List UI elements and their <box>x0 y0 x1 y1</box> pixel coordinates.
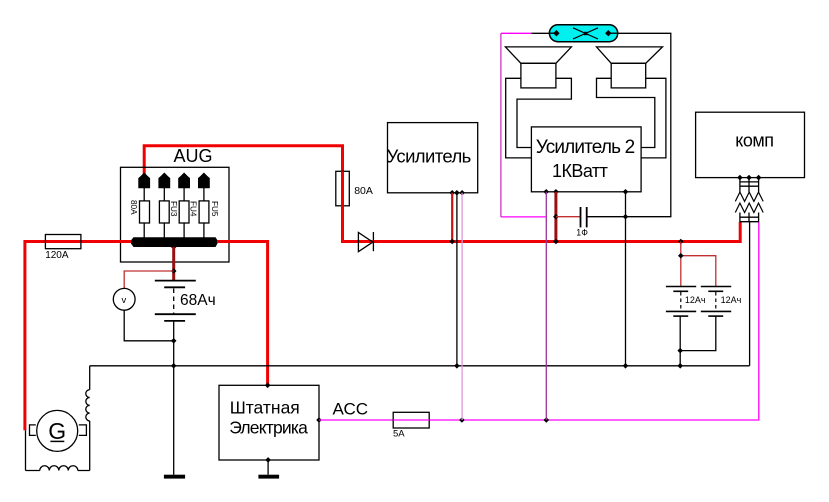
wire: voltmeter return <box>124 310 174 341</box>
box AUG <box>121 167 230 262</box>
fuse FU2 body <box>143 187 145 238</box>
svg-text:AUG: AUG <box>174 146 213 166</box>
generator right terminal bracket <box>79 425 87 436</box>
node: amp1 pin acc <box>459 190 465 196</box>
node: capacitor tap junction <box>553 214 559 220</box>
speaker SP1 body <box>521 63 556 88</box>
node: amp1 pin gnd <box>454 190 460 196</box>
node: capacitor lead / amp2 gnd crossing junction <box>623 214 629 220</box>
svg-text:G: G <box>48 418 66 444</box>
wire: amp1 ground to chassis rail <box>456 193 458 366</box>
node: 12Ач minus join <box>677 348 683 354</box>
ground: stock electrics <box>267 460 269 475</box>
battery 68Ач plate 2 long <box>155 313 196 315</box>
node: amp2 pin gnd <box>623 189 629 195</box>
generator G circle <box>37 410 78 451</box>
box Усилитель 2 1КВатт <box>531 127 641 192</box>
svg-text:Электрика: Электрика <box>229 417 308 437</box>
wire: capacitor right lead to lamp feed (black) <box>587 33 671 216</box>
wire: generator left lead down <box>25 430 27 470</box>
battery 68Ач dashed center <box>173 289 175 314</box>
battery 68Ач plate 2 short <box>164 320 185 322</box>
fuse FU4 body <box>183 187 185 238</box>
node: amp2 pin +12 <box>553 189 559 195</box>
node: voltmeter return junction <box>171 338 177 344</box>
wire: 12Ач minus leads to chassis rail <box>680 316 716 366</box>
voltmeter V <box>113 288 135 310</box>
node: komp pin 2 <box>746 175 752 181</box>
twisted cable: bottom ladder <box>740 213 759 223</box>
wire: amp2 remote down to ACC bus (violet) <box>545 192 547 420</box>
wire: thin red to voltmeter <box>124 271 174 289</box>
node: battery line / chassis rail junction <box>171 363 177 369</box>
svg-text:Усилитель 2: Усилитель 2 <box>536 137 635 158</box>
fuse 120A <box>45 235 81 249</box>
svg-text:80A: 80A <box>354 185 373 197</box>
wire: amp2 +12 to red bus (dark red) <box>554 192 557 242</box>
wire: SP1 left lead to amp2 <box>506 78 532 158</box>
wire: magenta lamp branch (vertical from lamp corner down, then to violet) <box>500 33 502 217</box>
wire: dark red bus bar to battery plus <box>172 247 175 281</box>
fuse FU5 body <box>203 187 205 238</box>
svg-text:1Ф: 1Ф <box>576 228 588 238</box>
svg-text:12Ач: 12Ач <box>685 295 706 305</box>
svg-text:Штатная: Штатная <box>230 398 300 418</box>
speaker SP1 horn <box>505 47 571 63</box>
wire: lamp left black lead <box>532 32 559 34</box>
wire: SP1 right lead to amp2 <box>517 78 571 147</box>
svg-text:комп: комп <box>735 131 773 151</box>
twisted cable zigzag row 1 <box>735 192 763 201</box>
diode D1 <box>358 233 372 252</box>
ground: battery <box>164 475 185 479</box>
speaker SP2 horn <box>597 47 663 63</box>
node: amp1 pin +12 <box>449 190 455 196</box>
node: amp2 pin remote <box>543 189 549 195</box>
twisted cable to komp: top ladder <box>740 178 759 193</box>
node: red feed into stock electrics <box>265 383 271 389</box>
fuse holder FU5 pin (pentagon) <box>199 173 210 188</box>
wire: SP2 right lead to amp2 <box>641 78 666 158</box>
battery 68Ач plate 1 long <box>155 280 196 282</box>
wire: komp ground (center) to chassis rail <box>749 222 751 366</box>
svg-text:1КВатт: 1КВатт <box>552 161 608 181</box>
svg-text:FU5: FU5 <box>210 201 219 217</box>
lamp X filament <box>573 28 598 39</box>
battery B2 12Ач <box>701 286 731 288</box>
speaker SP2 body <box>611 63 646 88</box>
svg-text:АСС: АСС <box>333 399 369 418</box>
node: junction bus/battery/voltmeter <box>171 268 177 274</box>
node: bus bar center tap <box>171 244 177 250</box>
svg-text:68Ач: 68Ач <box>180 292 216 309</box>
node: ACC junction amp2 <box>544 417 550 423</box>
node: ACC output <box>316 417 322 423</box>
svg-text:FU4: FU4 <box>189 201 198 217</box>
wire: amp1 +12 to red bus <box>451 193 453 242</box>
generator field coil (vertical) and riser <box>86 366 90 471</box>
node: chassis rail junction amp1 <box>454 363 460 369</box>
box комп <box>696 112 805 177</box>
svg-text:v: v <box>122 295 127 306</box>
fuse FU3 body <box>163 187 165 238</box>
svg-text:80A: 80A <box>129 200 138 215</box>
bus bar (AUG distribution bar) <box>130 237 219 247</box>
wire: magenta ACC bus <box>319 222 759 420</box>
generator left terminal bracket <box>30 425 36 436</box>
lamp terminal left <box>553 30 559 36</box>
wire: amp1 remote to ACC bus (light plum) <box>461 193 463 420</box>
wire: thin red to 12Ач batteries <box>680 242 682 287</box>
wire: thin red capacitor lead <box>556 216 580 218</box>
wire: red feed from AUG fuse FU2 up and over to 80A fuse <box>144 146 342 175</box>
wire: magenta to lamp left lead <box>501 32 532 34</box>
node: komp pin 1 <box>737 175 743 181</box>
chassis rail (black horizontal) <box>90 365 750 367</box>
battery 68Ач plate 1 short <box>164 286 185 288</box>
svg-text:5А: 5А <box>393 428 405 439</box>
node: red bus junction amp1 <box>449 239 455 245</box>
wire: battery minus down to ground <box>173 321 175 475</box>
twisted cable zigzag row 2 <box>735 203 763 212</box>
fuse holder FU2 pin (pentagon) <box>139 173 150 188</box>
svg-text:12Ач: 12Ач <box>721 295 742 305</box>
wire: red from bus bar right down to stock electrics box <box>217 242 268 386</box>
fuse holder FU3 pin (pentagon) <box>159 173 170 188</box>
svg-text:FU3: FU3 <box>169 201 178 217</box>
fuse 80A (vertical, main feed) <box>336 171 350 206</box>
wire: red main power bus <box>343 206 741 242</box>
lamp terminal right <box>605 30 611 36</box>
node: ACC junction amp1 <box>459 417 465 423</box>
node: chassis rail junction 12Ач <box>677 363 683 369</box>
capacitor C1 1Ф <box>580 207 582 227</box>
lamp inner leads <box>549 32 556 34</box>
fuse 5A <box>393 412 429 428</box>
node: red bus junction amp2 <box>553 239 559 245</box>
box Штатная Электрика <box>219 385 319 460</box>
svg-text:Усилитель: Усилитель <box>387 146 471 167</box>
node: stock electrics ground pin <box>265 457 271 463</box>
wire: SP2 left lead to amp2 <box>597 78 655 147</box>
node: chassis rail junction amp2 <box>623 363 629 369</box>
wire: red from bus bar left through 120A fuse down to generator <box>25 242 131 431</box>
battery B1 12Ач <box>666 286 696 288</box>
fuse holder FU4 pin (pentagon) <box>179 173 190 188</box>
wire: amp2 ground to chassis rail <box>625 192 627 366</box>
lamp (cyan capsule) <box>549 25 617 42</box>
node: red bus junction 12Ач batteries <box>678 239 684 245</box>
node: 12Ач branch junction <box>678 253 684 259</box>
box Усилитель <box>388 123 478 193</box>
generator bottom winding (horizontal coil) <box>26 466 90 471</box>
node: komp pin 3 <box>756 175 762 181</box>
svg-text:120A: 120A <box>45 250 69 261</box>
